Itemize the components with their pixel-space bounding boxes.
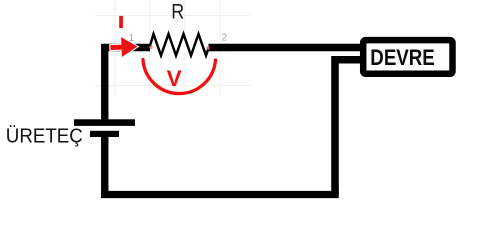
current arrow I [110, 36, 138, 57]
decorative grid (not labelled) [95, 0, 250, 95]
label I (current) [119, 16, 123, 28]
svg-text:R: R [171, 0, 184, 24]
voltage arc V [143, 60, 216, 94]
wire: resistor pin 2 to DEVRE box top terminal [209, 44, 363, 51]
wire: battery + up and right to resistor pin 1 [105, 48, 150, 123]
svg-text:2: 2 [222, 33, 228, 44]
battery B1 short plate (-) [90, 131, 119, 137]
wire: bottom rail [101, 191, 339, 198]
svg-text:V: V [167, 66, 182, 91]
subcircuit block DEVRE box [363, 40, 452, 74]
battery B1 long plate (+) [74, 119, 135, 126]
svg-text:DEVRE: DEVRE [370, 45, 435, 70]
wire: DEVRE box lower terminal left then down to bottom rail [335, 60, 362, 195]
svg-text:ÜRETEÇ: ÜRETEÇ [6, 125, 83, 148]
node dot: resistor pin 2 [206, 46, 209, 49]
node dot: resistor pin 1 [149, 46, 152, 49]
wire: bottom rail up to battery - terminal [101, 134, 108, 198]
current arrow I (white halo) [110, 36, 138, 57]
resistor R zigzag [150, 34, 209, 56]
